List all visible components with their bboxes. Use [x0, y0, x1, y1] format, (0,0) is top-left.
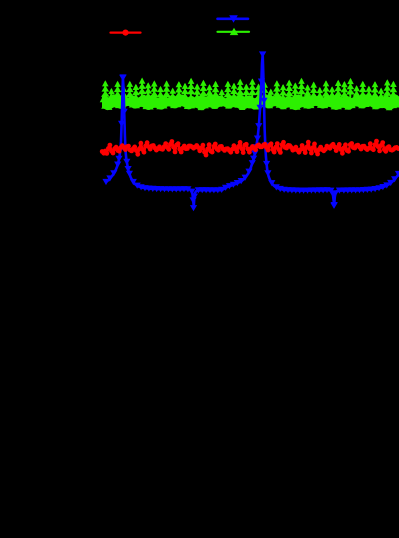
blue series markers	[102, 179, 109, 185]
legend red entry	[111, 31, 141, 33]
green series peak spikes	[104, 82, 106, 99]
red series markers	[100, 149, 105, 154]
legend blue entry	[218, 17, 249, 20]
legend green entry	[218, 31, 250, 33]
green series band	[103, 95, 398, 109]
blue series curve	[106, 55, 399, 207]
green band markers	[100, 96, 107, 102]
red series line	[102, 141, 398, 155]
